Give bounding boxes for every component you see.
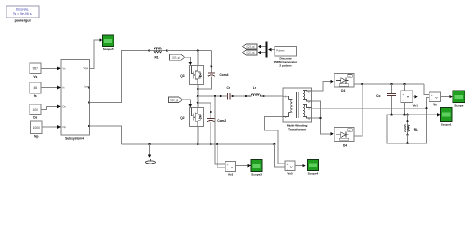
capacitor Com2 (198, 103, 227, 145)
powergui block (6, 6, 39, 23)
svg-text:-: - (287, 167, 288, 171)
svg-text:Co: Co (376, 94, 380, 98)
scope Scope5 (103, 35, 114, 51)
svg-text:100: 100 (33, 108, 39, 112)
wire Vs to subsystem in1 (41, 67, 61, 71)
svg-text:957: 957 (33, 67, 39, 71)
constant block Ds (30, 104, 41, 119)
svg-text:Vo1: Vo1 (413, 104, 419, 108)
voltage measurement Vo (429, 92, 440, 107)
svg-text:[Q2_g]: [Q2_g] (247, 51, 255, 55)
wire PWM to demux (268, 48, 275, 52)
diode D3 (334, 73, 354, 93)
voltage measurement Vo1 (401, 84, 419, 115)
inductor Lr (245, 86, 265, 97)
top rail D3 out (354, 83, 424, 85)
voltage measurement Vo5 (285, 161, 295, 176)
svg-text:Ds: Ds (33, 115, 37, 119)
svg-text:Scope5: Scope5 (103, 47, 114, 51)
wire Q3 source to midline (197, 85, 199, 98)
svg-text:Scope1: Scope1 (441, 122, 452, 126)
svg-text:[Q3_g]: [Q3_g] (172, 55, 180, 59)
svg-text:Scope3: Scope3 (251, 173, 262, 177)
constant block fs (30, 82, 41, 98)
capacitor Co (376, 84, 396, 115)
wire fs to subsystem in2 (41, 86, 61, 90)
capacitor Com4 (197, 51, 229, 91)
svg-text:Vs: Vs (33, 75, 37, 79)
wire Lr to transformer port 1 (264, 95, 283, 97)
wire Vo3 plus tap from midline (214, 95, 225, 164)
svg-text:Com2: Com2 (217, 119, 226, 123)
wire tag to Q2 gate (182, 100, 192, 108)
wire Vo3 to Scope3 (236, 164, 251, 168)
MOSFET Q2 (180, 108, 203, 127)
PWM generator block (274, 47, 298, 68)
wire Vo5 to Scope4 (295, 164, 306, 168)
resistor RL (405, 115, 418, 145)
constant block Vs (30, 63, 41, 79)
capacitor Cr (225, 86, 247, 100)
from tag Q3g (170, 54, 185, 60)
svg-text:2 pulses: 2 pulses (279, 64, 292, 68)
svg-text:Com4: Com4 (220, 73, 229, 77)
wire transformer port2L to Vo5 plus (265, 117, 286, 164)
multi-winding transformer T1 (283, 88, 312, 131)
midline wire to Cr (198, 95, 225, 97)
output loop wire (387, 98, 429, 144)
wire bus end to Vo5 minus (273, 143, 285, 167)
svg-text:-: - (227, 167, 228, 171)
svg-text:Q3: Q3 (180, 74, 184, 78)
svg-text:Vo3: Vo3 (228, 172, 234, 176)
svg-text:Np: Np (63, 125, 67, 129)
diode D4 (334, 128, 354, 148)
wire Np to subsystem in4 (42, 125, 61, 129)
svg-text:-: - (431, 98, 432, 102)
svg-text:RL: RL (414, 128, 418, 132)
bottom bus wire (122, 143, 275, 145)
svg-text:Vo5: Vo5 (287, 172, 293, 176)
svg-text:Ts = 5e-06 s.: Ts = 5e-06 s. (13, 12, 33, 16)
wire Vo3 minus tap from bus (216, 143, 225, 167)
wire transformer port1R to D3 (312, 80, 334, 91)
svg-text:D4: D4 (343, 143, 347, 147)
svg-text:[Q2_g]: [Q2_g] (170, 98, 178, 102)
demux D1 (258, 41, 268, 57)
wire Q2 source to bottom bus (197, 127, 199, 146)
svg-text:fs: fs (34, 94, 37, 98)
svg-text:m: m (349, 76, 351, 78)
MOSFET Q3 (180, 65, 203, 84)
wire transformer port3R center tap rail (312, 107, 427, 109)
svg-text:Vgs: Vgs (84, 66, 89, 70)
scope Scope3 (251, 160, 262, 177)
wire top rail to Vo plus (424, 84, 429, 95)
wire Ds to subsystem in3 (41, 105, 61, 110)
svg-text:Subsystem4: Subsystem4 (65, 136, 84, 140)
svg-text:+: + (402, 93, 404, 97)
svg-text:D3: D3 (341, 89, 345, 93)
svg-text:Vo: Vo (433, 103, 437, 107)
svg-text:Np: Np (34, 134, 38, 138)
scope Scope (453, 91, 465, 108)
wire tag to Q3 gate (185, 57, 192, 65)
scope Scope1 (441, 107, 453, 126)
svg-text:m: m (349, 130, 351, 132)
wire Vgs output to Scope5 (90, 38, 103, 68)
svg-text:Pulses: Pulses (276, 49, 285, 53)
goto tag Q3g (243, 44, 258, 49)
svg-text:powergui: powergui (15, 19, 31, 23)
from tag Q2g (169, 97, 183, 103)
resistor R1 (series RL branch) (149, 48, 167, 60)
svg-text:+: + (287, 162, 289, 166)
svg-text:Scope: Scope (454, 104, 463, 108)
scope Scope4 (307, 159, 318, 175)
svg-text:[Q3_g]: [Q3_g] (247, 45, 255, 49)
ground G1 (145, 143, 155, 164)
wire subsystem out4 to bottom bus (90, 126, 122, 144)
wire Vo to Scope (441, 95, 453, 99)
svg-text:+: + (227, 163, 229, 167)
svg-text:+: + (431, 93, 433, 97)
svg-text:Transformer: Transformer (288, 127, 307, 131)
svg-text:-: - (403, 99, 404, 103)
svg-text:Discrete,: Discrete, (16, 7, 29, 11)
subsystem U1 (61, 59, 90, 140)
svg-text:R1: R1 (154, 56, 158, 60)
wire transformer port2R/port4R to D4 (312, 101, 334, 136)
wire D4 out to top rail (354, 84, 362, 136)
svg-text:48: 48 (34, 86, 38, 90)
lower rail and scope feed (387, 113, 440, 117)
svg-text:Scope4: Scope4 (308, 172, 319, 176)
svg-text:1000: 1000 (33, 126, 40, 130)
voltage measurement Vo3 (225, 161, 236, 176)
wire Q2 drain to midline (197, 96, 199, 107)
constant block Np (31, 121, 43, 138)
svg-text:Q2: Q2 (180, 116, 184, 120)
goto tag Q2g (243, 50, 258, 55)
wire subsystem out3 to top bus (90, 50, 151, 103)
wire R1 to Q3 drain and Com4 (top bus) (166, 50, 212, 66)
